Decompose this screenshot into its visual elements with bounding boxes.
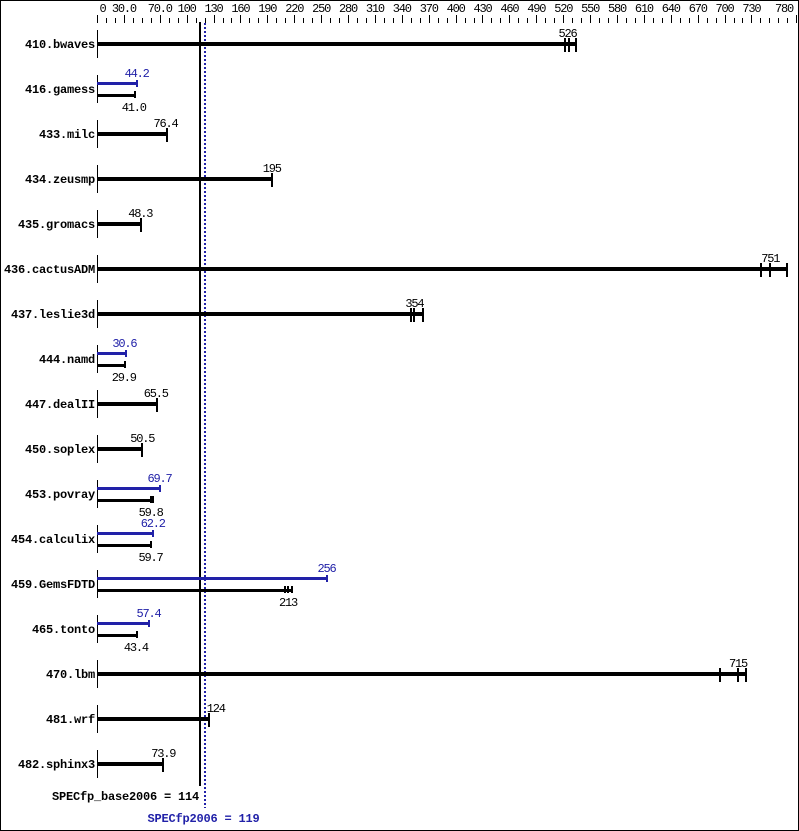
row 436.cactusADM [4,265,95,275]
row 434.zeusmp [25,175,95,185]
SPECfp_base2006 mean reference line (114) [199,22,201,786]
axis scale labels [100,4,106,14]
row 481.wrf [46,715,95,725]
summary line base [52,792,199,802]
row 465.tonto [32,625,95,635]
row 444.namd [39,355,95,365]
summary line peak [148,814,260,824]
axis ruler major ticks [97,15,98,23]
row 437.leslie3d [11,310,95,320]
row 410.bwaves [25,40,95,50]
row 450.soplex [25,445,95,455]
row 453.povray [25,490,95,500]
row 454.calculix [11,535,95,545]
row 459.GemsFDTD [11,580,95,590]
row 470.lbm [46,670,95,680]
row 447.dealII [25,400,95,410]
row 416.gamess [25,85,95,95]
row 433.milc [39,130,95,140]
SPECfp2006 mean reference dotted line (119) [204,23,206,808]
row 482.sphinx3 [18,760,95,770]
axis ruler minor ticks [106,18,107,23]
row 435.gromacs [18,220,95,230]
